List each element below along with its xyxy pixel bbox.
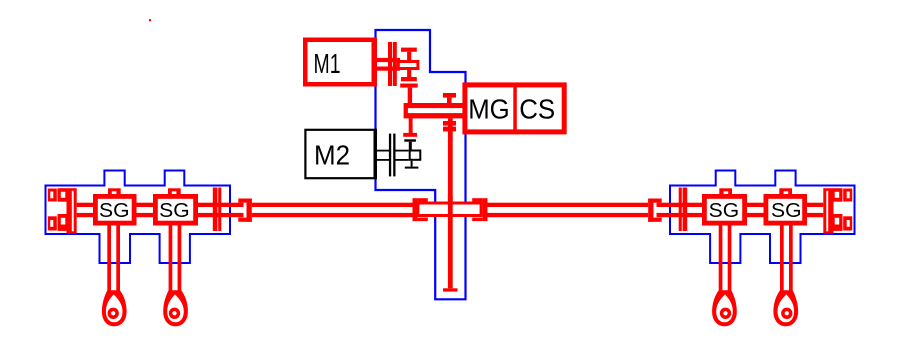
stray red dot [149, 19, 151, 21]
centre power unit housing outline (blue) [376, 30, 466, 299]
central shaft coupling right flange [472, 198, 487, 221]
M1 gear lower stack [400, 70, 418, 103]
M2 output shaft (black) [376, 150, 409, 161]
M2 gear top cap (black) [404, 139, 416, 149]
torque shaft to centre [252, 203, 417, 218]
SG2 gearbox tab [168, 188, 181, 195]
vertical output shaft [448, 118, 453, 203]
shaft SG1 to SG2 [136, 203, 154, 218]
M2 gear bottom (black) [405, 161, 419, 169]
M2 gear sleeve (black) [409, 150, 422, 161]
left branch to M2 gear [403, 117, 417, 137]
wing tip bracket [48, 188, 77, 233]
central coupling sleeve [416, 202, 482, 218]
M2 clutch discs (black) [389, 134, 396, 177]
right drive station assembly (mirror of left) [483, 171, 855, 327]
svg-text:M1: M1 [314, 48, 341, 79]
vertical shaft through coupling [448, 196, 453, 288]
gears on vertical shaft [443, 121, 456, 131]
M1 gear top [401, 48, 417, 61]
shaft SG2 to clutch and into coupling [198, 203, 244, 218]
actuator rod SG1 [107, 225, 120, 292]
svg-text:SG: SG [771, 200, 802, 222]
svg-text:CS: CS [519, 93, 555, 124]
motor M1 box [303, 38, 377, 87]
housing outline (blue) [46, 171, 231, 264]
svg-text:SG: SG [99, 200, 130, 222]
brake clutch discs [213, 188, 222, 232]
rod end eye SG1 [102, 290, 127, 326]
gearbox input sleeve [404, 103, 466, 118]
motor M2 box [304, 129, 377, 180]
shaft coupling flange [238, 199, 252, 222]
actuator rod SG2 [169, 225, 182, 292]
shaft bracket to SG1 [77, 203, 94, 218]
svg-text:MG: MG [468, 93, 510, 124]
central shaft coupling left flange [413, 198, 428, 221]
M1 gear sleeve [397, 60, 420, 70]
svg-text:M2: M2 [314, 140, 350, 171]
left drive station assembly (geometry, reused mirrored on right) [46, 171, 418, 327]
M1 clutch discs [388, 42, 397, 86]
SG2 gearbox box [153, 194, 198, 226]
svg-text:SG: SG [159, 200, 190, 222]
SG1 gearbox box [93, 194, 137, 226]
rod end eye SG2 [163, 290, 188, 326]
gearbox MG / CS box [462, 82, 566, 134]
vertical shaft end stop bar [443, 288, 458, 291]
SG1 gearbox tab [108, 188, 121, 195]
svg-text:SG: SG [709, 200, 740, 222]
gear on sleeve top [443, 93, 456, 103]
M1 output shaft [376, 58, 400, 71]
